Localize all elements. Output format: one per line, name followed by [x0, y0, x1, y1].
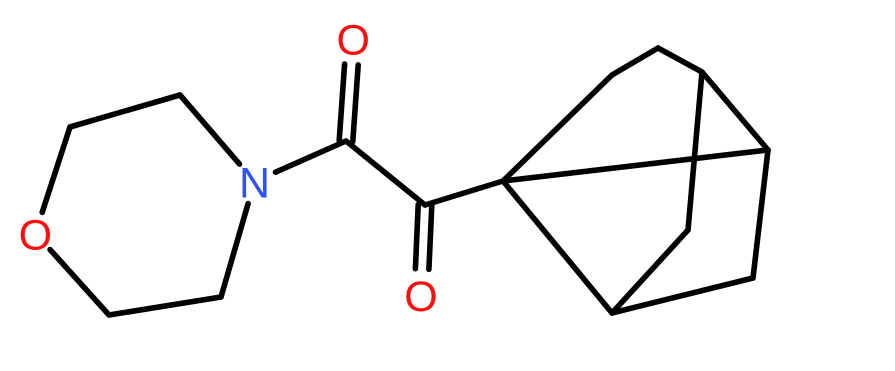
double bond Ca=Otop line a — [353, 65, 358, 142]
bond B-YM — [658, 48, 702, 72]
bond N-Ca — [276, 141, 347, 172]
svg-text:O: O — [404, 273, 437, 321]
bond A-XP — [503, 75, 612, 181]
bond C2-O — [42, 127, 70, 212]
bond C4-C5 — [109, 297, 221, 315]
bond D-XM — [753, 150, 768, 278]
bond ZM-C interior — [612, 230, 688, 313]
bond YM-ZM interior — [688, 72, 702, 230]
bond Cb-A — [425, 181, 503, 205]
bond C1-C2 — [70, 95, 180, 127]
bond N-C1 — [180, 95, 240, 164]
bond C5-N — [221, 204, 248, 297]
double bond Cb=Obot line b — [429, 205, 432, 269]
bond C-A — [503, 181, 612, 313]
double bond Cb=Obot line a — [415, 205, 418, 269]
svg-text:O: O — [336, 17, 369, 65]
double bond Ca=Otop line b — [339, 64, 344, 141]
bond Ca-Cb — [346, 141, 425, 205]
svg-text:O: O — [19, 211, 52, 259]
svg-text:N: N — [239, 160, 270, 208]
bond YM-D — [702, 72, 768, 150]
bond O-C4 — [50, 250, 109, 315]
bond XP-B — [612, 48, 658, 75]
bond XM-C — [612, 278, 753, 313]
bond A-D interior — [503, 150, 768, 181]
